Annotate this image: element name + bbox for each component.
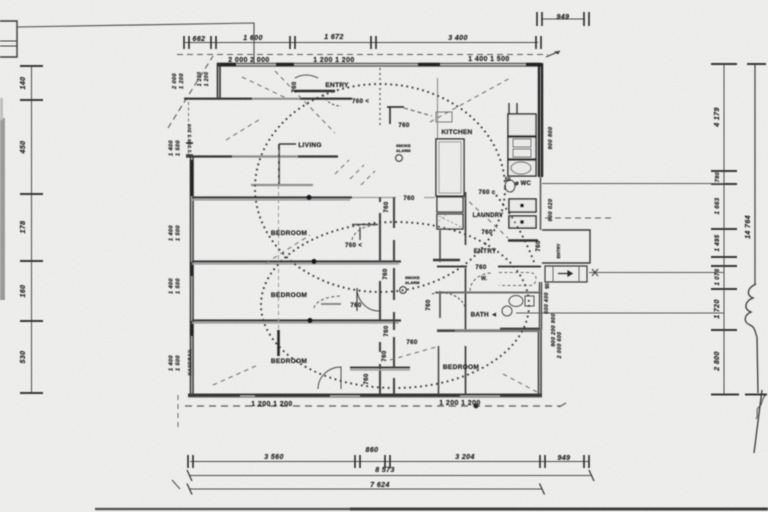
right line 2 [754, 63, 756, 285]
living L wall [279, 143, 296, 145]
smoke alarm circle 1 (dotted) [255, 84, 505, 292]
right wall rotated dims [544, 126, 563, 359]
wall W4 y261 [192, 260, 401, 262]
scan edge streak left [0, 118, 5, 300]
bedroom3 hall door arc [314, 296, 342, 308]
wall W3 y197 [192, 196, 352, 198]
bath mid wall y292 [435, 292, 541, 294]
hall right wall x465 [465, 192, 467, 394]
top dim ticks [184, 36, 541, 49]
top dashed outline [177, 54, 548, 56]
laundry appliances [509, 199, 536, 212]
title box top-left [0, 21, 17, 57]
top dimension line [185, 42, 538, 44]
right extension lines [542, 183, 724, 185]
basin [502, 306, 512, 316]
wc fixtures [505, 180, 515, 192]
bedroom2 door arc [357, 288, 379, 311]
bottom right door arc [318, 367, 341, 389]
bedroom4 top wall [350, 367, 410, 369]
bath bottom wall y330 [437, 329, 541, 332]
dim 949 top [541, 18, 585, 20]
hall door arc entry [470, 273, 492, 291]
dashed diagonal top-left [168, 56, 213, 128]
bottom wall [188, 394, 542, 396]
bath door arc [432, 293, 466, 311]
smoke alarm circle 2 (dotted) [261, 222, 529, 388]
dashed line right of laundry [545, 217, 612, 219]
left wall [191, 155, 194, 397]
junction dot [306, 195, 311, 200]
window line living [251, 184, 313, 186]
kitchen island [436, 139, 464, 196]
bedroom1 door arc [352, 225, 378, 240]
bottom dim line 3 [190, 488, 542, 490]
bottom dim line 1 [190, 461, 589, 463]
bedroom divider wall x278 [278, 150, 280, 330]
entry closet wall [387, 107, 404, 124]
wall W5 y320 [192, 319, 401, 321]
fridge mark [436, 112, 452, 122]
bedroom2 door sill [321, 303, 341, 305]
right wall kitchen side [539, 63, 542, 177]
right dim line [723, 63, 725, 394]
squiggle [745, 284, 757, 337]
arrowhead top dashed [546, 51, 560, 57]
bath top wall y266 [437, 266, 541, 268]
hall left wall x380 [379, 197, 381, 394]
shower dashed [499, 273, 536, 286]
entry door arc [322, 90, 341, 106]
entry hall dotted line [379, 68, 381, 125]
pantry rects below island [437, 197, 463, 212]
door head under ENTRY [294, 90, 335, 92]
hall right wall x394 [393, 197, 395, 394]
bottom dim line 2 [190, 475, 592, 477]
porch left wall [218, 63, 221, 99]
porch arrow [558, 271, 572, 276]
left wall dims rotated [169, 72, 211, 376]
porch left dashed edge [188, 102, 190, 155]
kitchen bench right [508, 114, 536, 136]
wall W2 y156 [186, 155, 338, 157]
toilet [509, 296, 523, 307]
bedroom1 closet corner [352, 225, 378, 241]
house top wall [217, 64, 541, 67]
bottom dashed outline [185, 405, 560, 407]
left dim line [31, 66, 33, 393]
leader line from title box [17, 23, 254, 64]
entry porch right [542, 230, 590, 263]
dashed roof diagonals [213, 71, 537, 392]
wall W1 entry y98 [190, 98, 352, 100]
bottom page strip [95, 508, 768, 510]
wall x440 segments [439, 230, 441, 394]
dotted arc entry area [496, 195, 534, 262]
